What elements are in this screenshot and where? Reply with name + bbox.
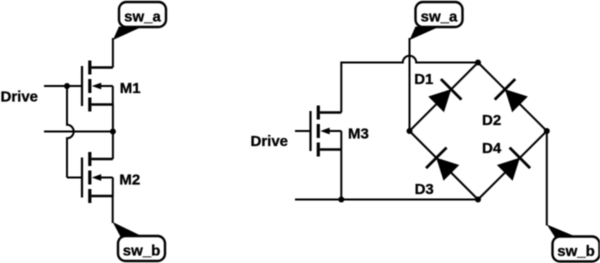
transistor M1 xyxy=(81,61,113,112)
net flag sw_b (right) xyxy=(553,237,600,262)
junction gate node xyxy=(64,83,70,89)
wire M2 source to sw_b flag xyxy=(112,196,114,223)
svg-text:Drive: Drive xyxy=(1,89,39,106)
junction bridge top node xyxy=(475,60,481,66)
svg-text:sw_a: sw_a xyxy=(421,8,458,25)
svg-text:M1: M1 xyxy=(120,80,141,97)
wire bridge edge top-right xyxy=(478,63,547,132)
svg-text:sw_b: sw_b xyxy=(557,243,595,260)
net flag sw_a (left) xyxy=(119,2,166,27)
wire M2 gate xyxy=(67,177,81,179)
wire bridge edge left-top xyxy=(410,63,479,132)
junction bridge left node xyxy=(407,128,413,134)
junction M3 source node xyxy=(338,197,344,203)
net flag sw_b tail (left) xyxy=(113,222,141,237)
wire mid node to M2 drain xyxy=(112,132,114,160)
junction bridge bottom node xyxy=(475,197,481,203)
diode D1 (anode left node, cathode top node) xyxy=(426,79,462,115)
wire sw_a flag to M1 drain xyxy=(112,38,114,68)
wire M1 source to mid node xyxy=(112,105,114,132)
wire sw_a flag to bridge left node xyxy=(409,38,411,131)
svg-text:sw_a: sw_a xyxy=(124,8,161,25)
diode D2 (anode right node, cathode top node) xyxy=(495,79,531,115)
wire Drive to M3 gate xyxy=(295,130,310,132)
wire mid node stub xyxy=(44,131,113,133)
svg-text:Drive: Drive xyxy=(251,133,289,150)
svg-text:D2: D2 xyxy=(482,112,501,129)
junction mid node xyxy=(110,129,116,135)
net flag sw_a tail (left) xyxy=(113,27,141,41)
svg-text:D1: D1 xyxy=(414,71,433,88)
transistor M3 xyxy=(309,106,341,157)
wire bottom node to bridge bottom xyxy=(295,199,478,201)
net flag sw_a tail (right) xyxy=(410,27,439,41)
wire M3 source lead xyxy=(340,150,342,200)
wire bridge edge left-bottom xyxy=(410,131,479,200)
wire Drive to M1 gate xyxy=(44,85,81,87)
svg-text:M2: M2 xyxy=(119,171,140,188)
net flag sw_b (left) xyxy=(118,236,165,261)
svg-text:D3: D3 xyxy=(415,181,434,198)
net flag sw_a (right) xyxy=(416,2,463,27)
svg-text:D4: D4 xyxy=(482,140,502,157)
wire bridge right node to sw_b flag xyxy=(546,131,548,226)
diode D3 (anode bottom node, cathode left node) xyxy=(426,147,462,183)
junction bridge right node xyxy=(544,128,550,134)
svg-text:M3: M3 xyxy=(348,126,369,143)
svg-text:sw_b: sw_b xyxy=(123,242,161,259)
wire M3 drain to bridge top node with hop over sw_a wire xyxy=(341,56,478,113)
net flag sw_b tail (right) xyxy=(547,225,573,238)
transistor M2 xyxy=(81,152,113,203)
wire gate link M1 to M2 with hop over mid-node wire xyxy=(67,86,74,178)
wire bridge edge bottom-right xyxy=(478,131,547,200)
diode D4 (anode bottom node, cathode right node) xyxy=(495,147,531,183)
